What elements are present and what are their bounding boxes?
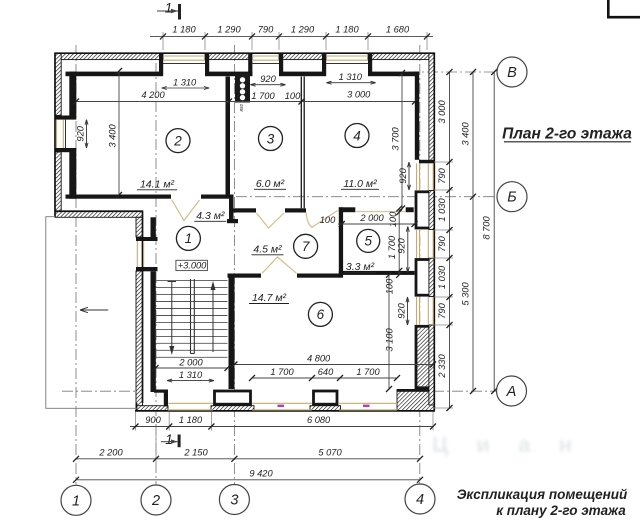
- svg-text:1 030: 1 030: [437, 265, 447, 289]
- dim row 9420: [76, 479, 420, 481]
- svg-text:6 080: 6 080: [307, 415, 331, 425]
- stair right wall: [229, 274, 235, 390]
- room circle 6: [308, 302, 332, 326]
- svg-text:А: А: [506, 384, 517, 400]
- right extension lines: [434, 162, 453, 408]
- dim 920 room5 right window: [406, 227, 409, 273]
- svg-text:5 070: 5 070: [318, 447, 342, 457]
- svg-text:2 000: 2 000: [178, 358, 203, 368]
- svg-text:4.3 м²: 4.3 м²: [196, 210, 225, 222]
- partition rooms 3/4 (double line): [301, 77, 304, 209]
- svg-text:В: В: [507, 65, 517, 81]
- extension lines top: [163, 32, 427, 50]
- corner frame top-right: [608, 0, 640, 17]
- inner wall layer: top: [66, 72, 420, 77]
- svg-text:1: 1: [165, 1, 173, 16]
- svg-text:6: 6: [317, 307, 325, 322]
- wall jog at hall: [229, 195, 234, 220]
- svg-text:7: 7: [302, 239, 310, 254]
- axis circle В: [497, 57, 527, 87]
- svg-text:5: 5: [364, 234, 372, 249]
- room 5 entry threshold: [355, 211, 405, 213]
- exterior wall: left hatch band: [55, 53, 61, 211]
- room 5 walls: [339, 207, 415, 275]
- dim 1310 stairs: [167, 379, 214, 382]
- svg-text:1 700: 1 700: [251, 91, 275, 101]
- svg-text:900: 900: [145, 415, 161, 425]
- svg-text:640: 640: [318, 367, 334, 377]
- axis line 2: [155, 63, 157, 485]
- dims right of room5: 100/1700: [398, 209, 400, 275]
- door room4: [306, 211, 338, 228]
- dim 920 room6 right window: [406, 297, 409, 325]
- window W3 top (1180): [326, 56, 368, 60]
- svg-text:1 310: 1 310: [339, 72, 363, 82]
- dim 2000 stairs: [156, 367, 228, 369]
- svg-text:3: 3: [230, 493, 238, 509]
- svg-text:100: 100: [320, 215, 336, 225]
- svg-text:1 310: 1 310: [173, 77, 197, 87]
- svg-text:790: 790: [437, 167, 447, 183]
- room 6 top wall: [228, 274, 344, 278]
- axis circle Б: [497, 182, 527, 212]
- dim 1700/640/1700: [252, 377, 397, 379]
- svg-text:3 000: 3 000: [347, 90, 371, 100]
- dim row 900/1180/6080: [130, 426, 433, 428]
- svg-text:2 200: 2 200: [98, 447, 123, 457]
- svg-text:1 030: 1 030: [437, 198, 447, 222]
- window W4 left (920): [57, 120, 64, 148]
- svg-text:4.5 м²: 4.5 м²: [253, 243, 282, 255]
- vert dim 920 room2 window: [85, 120, 88, 148]
- terrace entry arrow: [80, 307, 108, 312]
- svg-text:2 150: 2 150: [183, 447, 208, 457]
- svg-text:1 290: 1 290: [291, 25, 315, 35]
- axis line A(А) left: [62, 390, 142, 392]
- room circle 3: [259, 127, 283, 151]
- svg-text:790: 790: [437, 235, 447, 251]
- extension lines bottom: [136, 412, 434, 463]
- right wall window1 top jamb: [419, 160, 435, 164]
- right dim line C: [493, 72, 495, 391]
- inner wall layer: right (room 4): [415, 72, 419, 160]
- watermark: [432, 432, 572, 457]
- svg-text:к плану 2-го этажа: к плану 2-го этажа: [496, 503, 626, 518]
- exterior wall: top hatch band: [55, 53, 434, 59]
- svg-text:2: 2: [173, 133, 182, 148]
- axis circle А: [497, 376, 527, 406]
- dim 4800 room6: [234, 364, 433, 366]
- room circle 5: [357, 229, 380, 252]
- svg-text:920: 920: [260, 74, 276, 84]
- axis line A(А) right: [433, 390, 496, 392]
- vert dim 3700 room4: [401, 73, 403, 209]
- windows bottom wall: [168, 403, 397, 410]
- right dim line B: [472, 72, 474, 391]
- svg-text:3 400: 3 400: [461, 122, 471, 146]
- arrow dim 1310 room2: [162, 87, 210, 90]
- wall B (axis Б) room2 bottom: [66, 195, 230, 199]
- dim texts top row: [172, 25, 410, 35]
- svg-text:1 290: 1 290: [217, 25, 241, 35]
- svg-text:3 400: 3 400: [108, 124, 118, 148]
- svg-text:8 700: 8 700: [482, 216, 492, 240]
- exterior wall: left lower hatch band: [136, 217, 143, 410]
- svg-text:100: 100: [385, 278, 395, 294]
- vent shaft: [236, 75, 250, 103]
- stair arrow down (left flight): [168, 282, 177, 352]
- room circle 1: [176, 226, 200, 250]
- room circle 7: [294, 234, 318, 258]
- svg-text:1 180: 1 180: [335, 25, 359, 35]
- svg-text:5 300: 5 300: [461, 282, 471, 306]
- right dim line A: [449, 72, 451, 408]
- bottom-left corner jamb: [154, 390, 168, 393]
- exterior wall: right hatch band: [429, 53, 434, 405]
- door room2->room1: [172, 200, 200, 221]
- dim 100/2000 room5 top: [338, 223, 415, 225]
- vert dim 3400 room2: [118, 71, 120, 195]
- room circle 2: [166, 129, 190, 153]
- axis line 1: [75, 45, 77, 485]
- window recess left: [65, 120, 67, 148]
- svg-text:100: 100: [388, 211, 398, 227]
- axis circle 3: [219, 485, 249, 515]
- partition rooms 2/3: [226, 77, 231, 195]
- svg-text:1 680: 1 680: [386, 25, 410, 35]
- svg-text:План 2-го этажа: План 2-го этажа: [502, 126, 632, 143]
- svg-text:2 000: 2 000: [359, 213, 384, 223]
- right wall piers (white body): [416, 192, 433, 295]
- svg-text:+3.000: +3.000: [178, 261, 208, 271]
- svg-text:1: 1: [185, 231, 193, 246]
- svg-text:100: 100: [285, 91, 301, 101]
- svg-text:3 000: 3 000: [437, 100, 447, 124]
- dims right of room6: 100/3100: [388, 275, 390, 389]
- svg-text:2 330: 2 330: [437, 354, 447, 379]
- section mark top: [178, 4, 181, 20]
- svg-text:1: 1: [165, 432, 173, 447]
- stairs treads: [156, 281, 228, 358]
- svg-text:3 700: 3 700: [391, 127, 401, 151]
- inner wall layer: left (room 2): [69, 72, 76, 199]
- axis line 3: [233, 45, 235, 484]
- window recess lines top: [163, 63, 368, 65]
- axis circle 2: [141, 485, 171, 515]
- svg-text:4 200: 4 200: [141, 90, 165, 100]
- axis line Б: [236, 196, 497, 198]
- lower-left wall window jambs: [136, 237, 158, 271]
- axis line B(В): [408, 71, 497, 73]
- door hall->room6: [262, 257, 297, 273]
- svg-text:4: 4: [416, 492, 424, 508]
- svg-text:14.7 м²: 14.7 м²: [252, 292, 287, 304]
- svg-text:1 310: 1 310: [179, 370, 203, 380]
- windows right wall: [417, 163, 434, 325]
- room circle 4: [345, 124, 369, 148]
- svg-text:850: 850: [239, 104, 244, 112]
- axis line 4: [419, 45, 421, 484]
- bottom wall piers (white body): [215, 391, 338, 404]
- window W2 top (790): [252, 56, 279, 60]
- ticks top row: [160, 33, 430, 39]
- top wall window jambs: [159, 54, 372, 76]
- axis circle 1: [61, 485, 91, 515]
- svg-text:920: 920: [76, 125, 86, 141]
- svg-text:Экспликация помещений: Экспликация помещений: [457, 487, 628, 502]
- svg-text:2: 2: [151, 493, 160, 509]
- arrow dim 1310 room4: [326, 81, 375, 84]
- window W5 left lower: [137, 241, 143, 267]
- svg-text:3.3 м²: 3.3 м²: [346, 261, 375, 273]
- svg-text:3: 3: [267, 131, 275, 146]
- svg-text:1: 1: [72, 493, 80, 509]
- svg-text:1 180: 1 180: [179, 415, 203, 425]
- svg-text:920: 920: [398, 167, 408, 183]
- svg-text:1 700: 1 700: [387, 235, 397, 259]
- svg-text:1 700: 1 700: [356, 367, 380, 377]
- outer edge emphasis lines: [55, 53, 435, 411]
- svg-text:Б: Б: [507, 190, 516, 206]
- stair arrow up (right flight): [212, 285, 214, 352]
- dim line top row: [150, 35, 433, 37]
- window W1 top (1180): [163, 56, 205, 60]
- vert dim 920 room4 window: [408, 162, 411, 190]
- door room3: [257, 213, 285, 228]
- wall B under rooms 3-4: [234, 208, 307, 212]
- exterior wall: bottom band + corners: [136, 390, 434, 411]
- svg-text:920: 920: [397, 237, 407, 253]
- section mark bottom: [178, 435, 181, 448]
- svg-text:790: 790: [258, 25, 274, 35]
- svg-text:4 800: 4 800: [307, 353, 331, 363]
- arrow dim 920 room3: [250, 83, 285, 86]
- svg-text:4: 4: [353, 128, 361, 143]
- svg-text:790: 790: [437, 302, 447, 318]
- svg-text:14.1 м²: 14.1 м²: [140, 178, 175, 190]
- svg-text:6.0 м²: 6.0 м²: [256, 178, 285, 190]
- exterior wall: left jog band: [55, 211, 143, 218]
- axis circle 4: [405, 484, 435, 514]
- magenta vent marks bottom windows: [278, 405, 285, 407]
- inner wall layer: room1 left: [151, 217, 156, 392]
- svg-text:9 420: 9 420: [249, 468, 273, 478]
- svg-text:920: 920: [397, 302, 407, 318]
- svg-text:11.0 м²: 11.0 м²: [343, 178, 377, 190]
- stair divider: [191, 279, 195, 354]
- svg-text:3 100: 3 100: [385, 328, 395, 352]
- left wall window jambs: [55, 116, 76, 153]
- dim line row y101.5 (4200/1700/100/3000): [76, 101, 415, 103]
- svg-text:1 180: 1 180: [172, 25, 196, 35]
- dim row 2200/2150/5070: [76, 458, 420, 460]
- terrace outline: [46, 217, 139, 409]
- level mark +3.000: [176, 260, 208, 270]
- svg-text:1 700: 1 700: [270, 367, 294, 377]
